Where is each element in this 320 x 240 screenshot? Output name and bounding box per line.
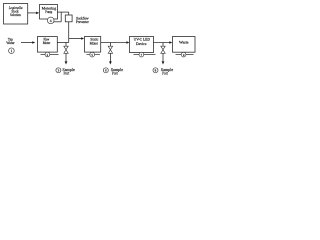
arrowhead sample 2 [109, 61, 112, 64]
valve V3 [161, 46, 165, 53]
arrowheads [32, 12, 172, 65]
svg-text:Port: Port [112, 71, 118, 76]
circle 1 tap water [9, 48, 15, 54]
wire tag line under static mixer [87, 54, 101, 56]
wire tag line under UV-C device [134, 54, 156, 56]
backflow preventer square [65, 15, 72, 22]
arrowhead into static mixer [81, 37, 84, 40]
wire static mixer to UV-C [101, 42, 128, 44]
wire riser down from backflow preventer [68, 22, 70, 43]
wire tap water arrow [21, 42, 33, 44]
box Legionella Stock Solution [4, 4, 28, 25]
svg-text:Meter: Meter [43, 41, 51, 45]
arrowhead into waste [169, 41, 172, 44]
svg-text:Mixer: Mixer [90, 42, 99, 46]
svg-text:Port: Port [64, 71, 70, 76]
circle 4 metering pump [47, 17, 54, 24]
svg-text:Port: Port [162, 71, 168, 76]
svg-text:1: 1 [10, 49, 12, 53]
circle 5 static mixer [90, 52, 95, 57]
wire flow meter output bar [57, 42, 68, 44]
circle 2 flow meter [45, 52, 50, 57]
box Flow Meter [38, 37, 58, 53]
wire pump circle to riser [53, 21, 61, 23]
circle 9 waste [181, 52, 186, 57]
circled numbers [41, 54, 194, 56]
wire tag line under flow meter [41, 54, 59, 56]
svg-text:Pump: Pump [45, 10, 52, 14]
arrowhead into metering pump [36, 12, 39, 15]
svg-text:Water: Water [6, 41, 15, 45]
arrowhead sample 1 [65, 61, 68, 64]
arrowhead sample 3 [162, 61, 165, 64]
wire arrow to metering pump [28, 12, 37, 14]
circle 3 sample port 1 [56, 68, 61, 73]
wire feed to static mixer [69, 38, 82, 40]
circle 8 sample port 3 [153, 68, 158, 73]
circle 6 sample port 2 [103, 68, 108, 73]
wire sample line 1 [65, 43, 67, 47]
svg-text:Device: Device [136, 42, 147, 46]
box Static Mixer [85, 37, 101, 53]
svg-text:UV-C LED: UV-C LED [134, 38, 151, 42]
svg-text:Preventer: Preventer [76, 20, 89, 24]
arrowhead into flow meter [32, 41, 35, 44]
circle 7 UV-C device [139, 52, 144, 57]
wire tag line under waste [176, 54, 194, 56]
wire sample line 3 [162, 43, 164, 47]
wire UV-C to waste [154, 42, 171, 44]
box Metering Pump [40, 5, 58, 20]
box UV-C LED Device [130, 37, 154, 53]
svg-text:4: 4 [50, 19, 52, 23]
valve V1 [64, 46, 68, 53]
wire sample line 2 [109, 43, 111, 47]
arrowhead into UV-C [126, 41, 129, 44]
box Waste [173, 37, 196, 53]
svg-text:Solution: Solution [10, 13, 21, 17]
valve V2 [108, 46, 112, 53]
svg-text:Waste: Waste [179, 41, 189, 45]
